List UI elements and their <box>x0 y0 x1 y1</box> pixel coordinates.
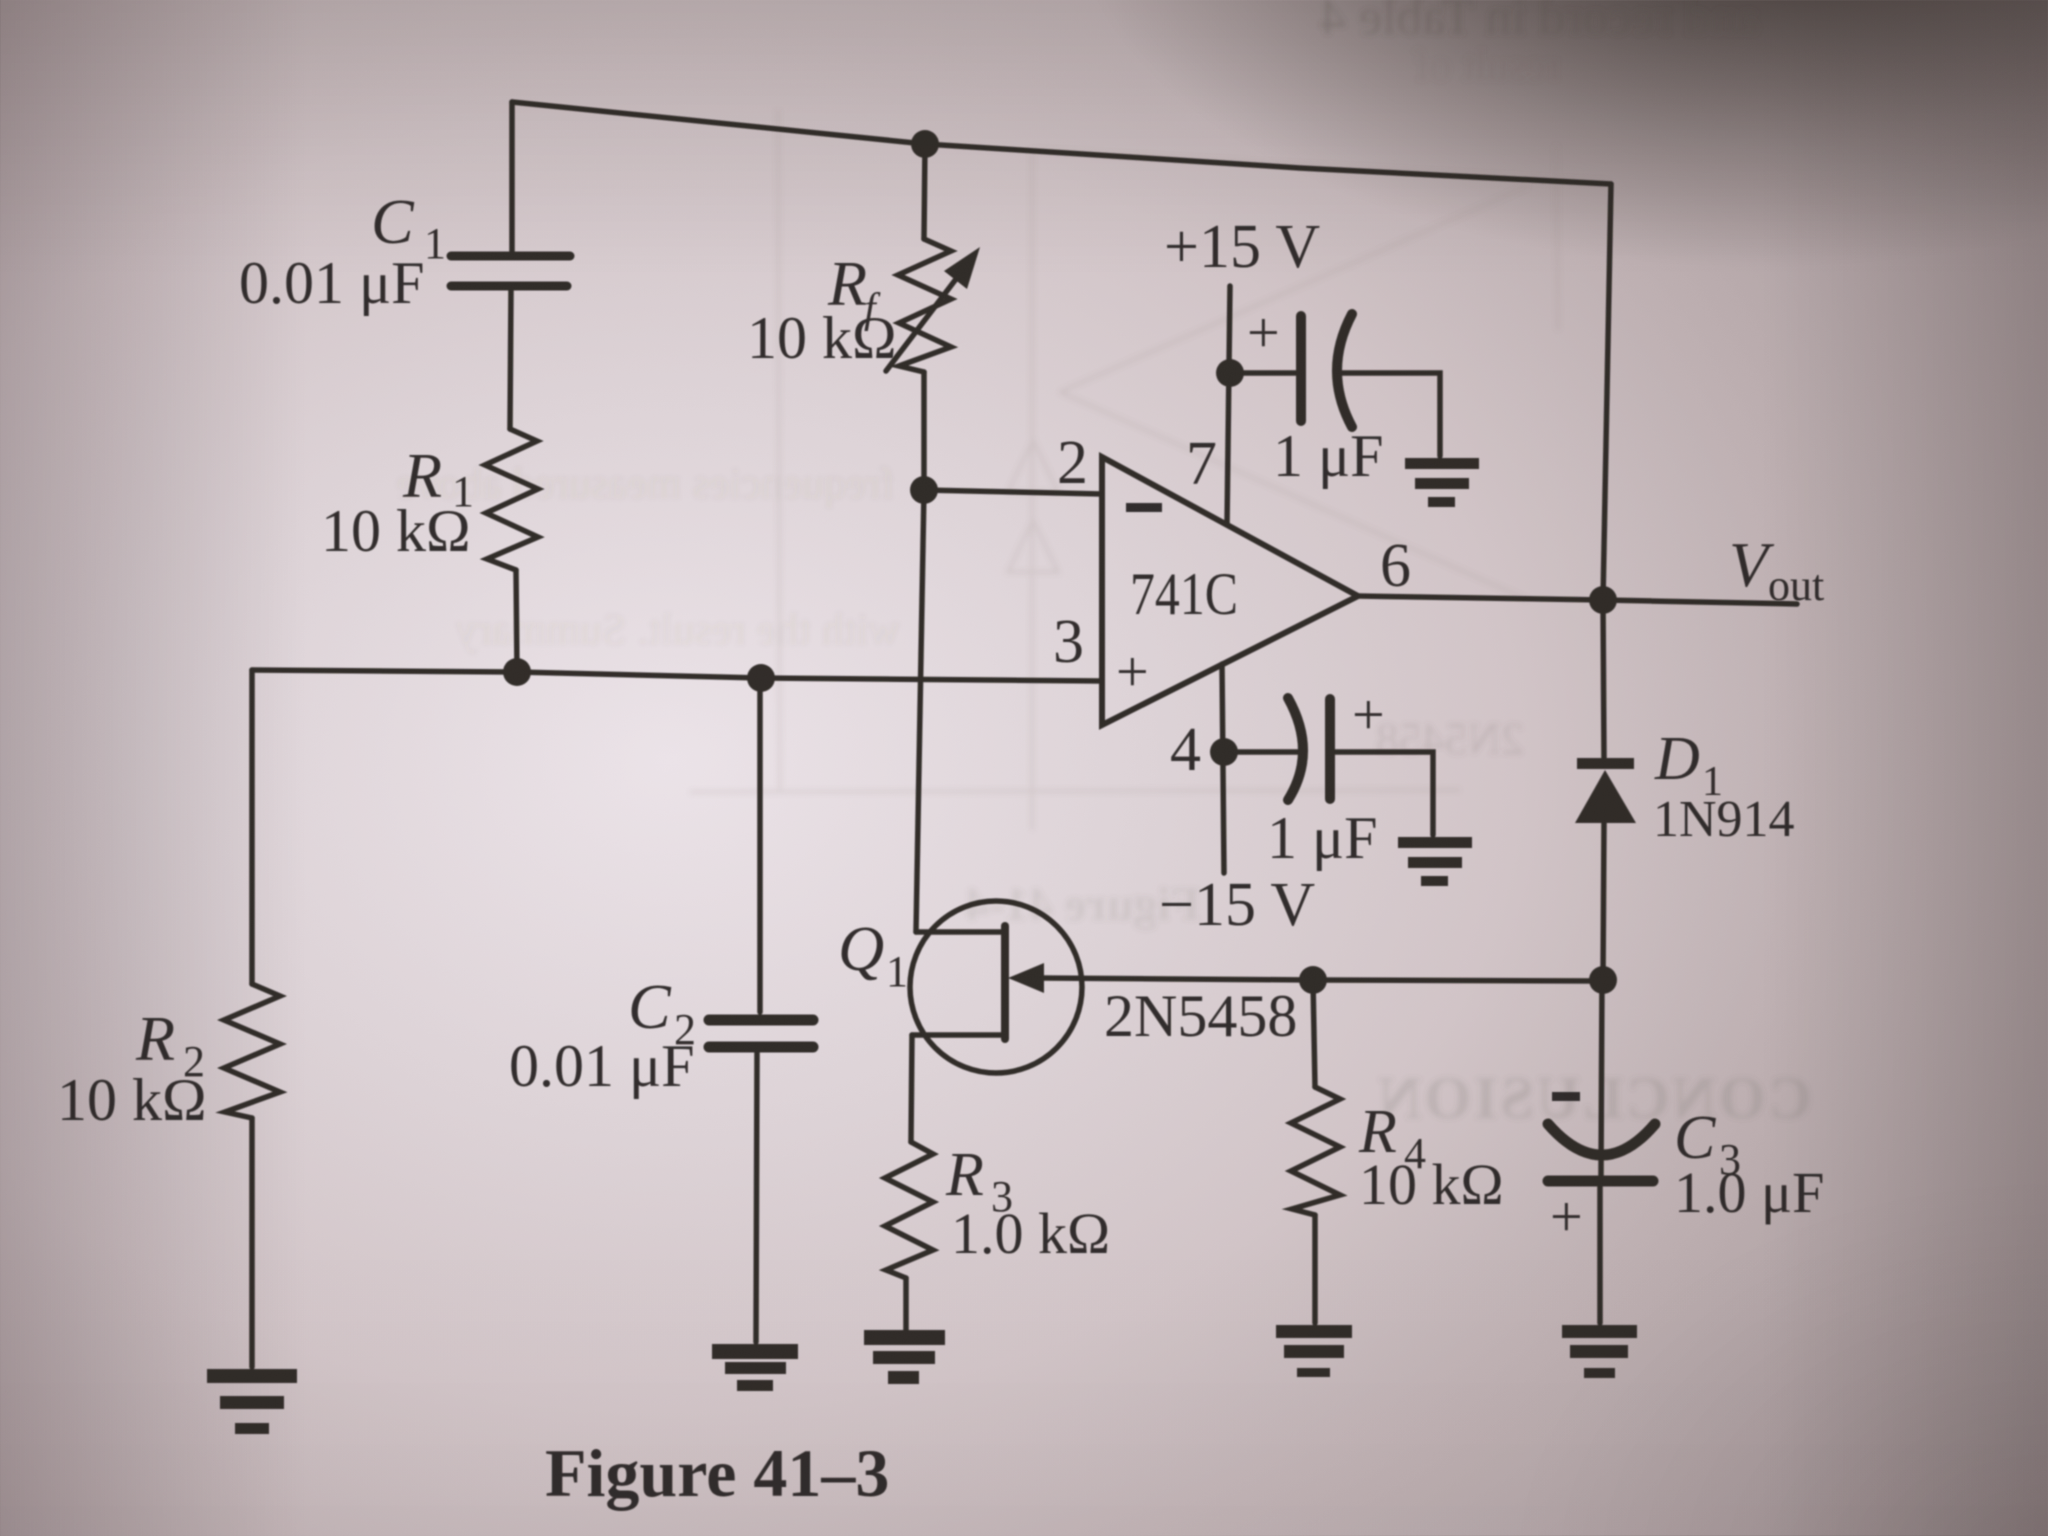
capacitor 1uF (-15V bypass) <box>1288 698 1330 800</box>
wire -15V node to bypass cap <box>1224 749 1298 755</box>
wire C3 to ground <box>1597 1187 1603 1323</box>
resistor R2 <box>224 984 280 1118</box>
ground (-15V bypass) <box>1398 837 1472 886</box>
ground (+15V bypass) <box>1405 458 1479 507</box>
resistor R1 <box>485 429 538 570</box>
wire R3 to ground <box>903 1278 909 1330</box>
Q1 gate arrow <box>1008 963 1044 993</box>
circuit layer <box>207 102 1797 1434</box>
wire C1 to R1 <box>510 290 511 429</box>
node D junction dot <box>1589 966 1617 994</box>
resistor R3 <box>885 1142 933 1278</box>
ground (C2) <box>712 1344 798 1391</box>
wire bypass cap 2 to ground <box>1330 752 1433 835</box>
resistor R4 <box>1291 1087 1340 1215</box>
wire Vout node down to D1 <box>1603 600 1604 758</box>
wire node D to C3 <box>1601 980 1602 1176</box>
node -15V junction dot <box>1210 738 1238 766</box>
arrow of Rf <box>886 279 956 371</box>
minus input sign <box>1126 503 1162 512</box>
ground (R4) <box>1276 1325 1352 1377</box>
bleed-through layer <box>397 0 1812 1131</box>
Q1 channel bar <box>1001 926 1009 1039</box>
Q1 drain lead <box>916 929 1002 935</box>
capacitor C1 <box>451 256 570 286</box>
ground (C3) <box>1562 1325 1637 1378</box>
wire R4 node down <box>1313 980 1315 1087</box>
ground (R3) <box>864 1330 945 1384</box>
wire R4 to ground <box>1312 1215 1318 1323</box>
node +15V junction dot <box>1216 359 1244 387</box>
node R4 junction dot <box>1299 966 1327 994</box>
wire node C down to Q1 drain <box>916 490 924 932</box>
diode D1 <box>1575 758 1636 823</box>
wire Rf to node C <box>921 372 927 490</box>
potentiometer Rf <box>898 239 951 372</box>
transistor Q1 circle <box>910 901 1082 1073</box>
node Vout junction dot <box>1589 586 1617 614</box>
label layer <box>57 186 1824 1511</box>
wire right rail down to output node <box>1603 184 1611 600</box>
wire gate line <box>1040 978 1602 981</box>
ground (R2) <box>207 1369 297 1434</box>
node Rf-top junction dot <box>911 130 939 158</box>
op-amp U1 triangle <box>1102 457 1358 725</box>
capacitor C3 electrolytic <box>1548 1124 1655 1181</box>
wire top rail to Rf <box>924 144 925 239</box>
wire node B to C2 <box>757 678 763 1012</box>
wire R1 to node A <box>516 570 517 672</box>
wire Q1 source to R3 <box>911 1035 912 1142</box>
minus sign (C3) <box>1552 1092 1580 1101</box>
Q1 source lead <box>912 1032 1002 1038</box>
wire C1 top lead <box>509 102 515 252</box>
wire +15V node to bypass cap <box>1230 370 1296 376</box>
wire noninverting input line <box>252 670 1102 681</box>
capacitor 1uF (+15V bypass) <box>1301 314 1352 427</box>
wire output pin 6 <box>1358 596 1797 604</box>
node A junction dot <box>503 658 531 686</box>
wire bypass cap to ground <box>1340 373 1440 456</box>
capacitor C2 <box>709 1020 813 1047</box>
node B junction dot <box>747 664 775 692</box>
node C junction dot <box>910 476 938 504</box>
wire R2 to ground <box>249 1118 255 1367</box>
wire node C to pin 2 <box>924 490 1102 494</box>
pin 4 lead <box>1222 664 1224 873</box>
pin 7 lead <box>1227 286 1230 525</box>
wire D1 to node D <box>1603 823 1604 980</box>
wire top rail <box>512 102 1611 184</box>
wire left branch down to R2 <box>249 670 255 984</box>
wire C2 to ground <box>756 1053 757 1342</box>
